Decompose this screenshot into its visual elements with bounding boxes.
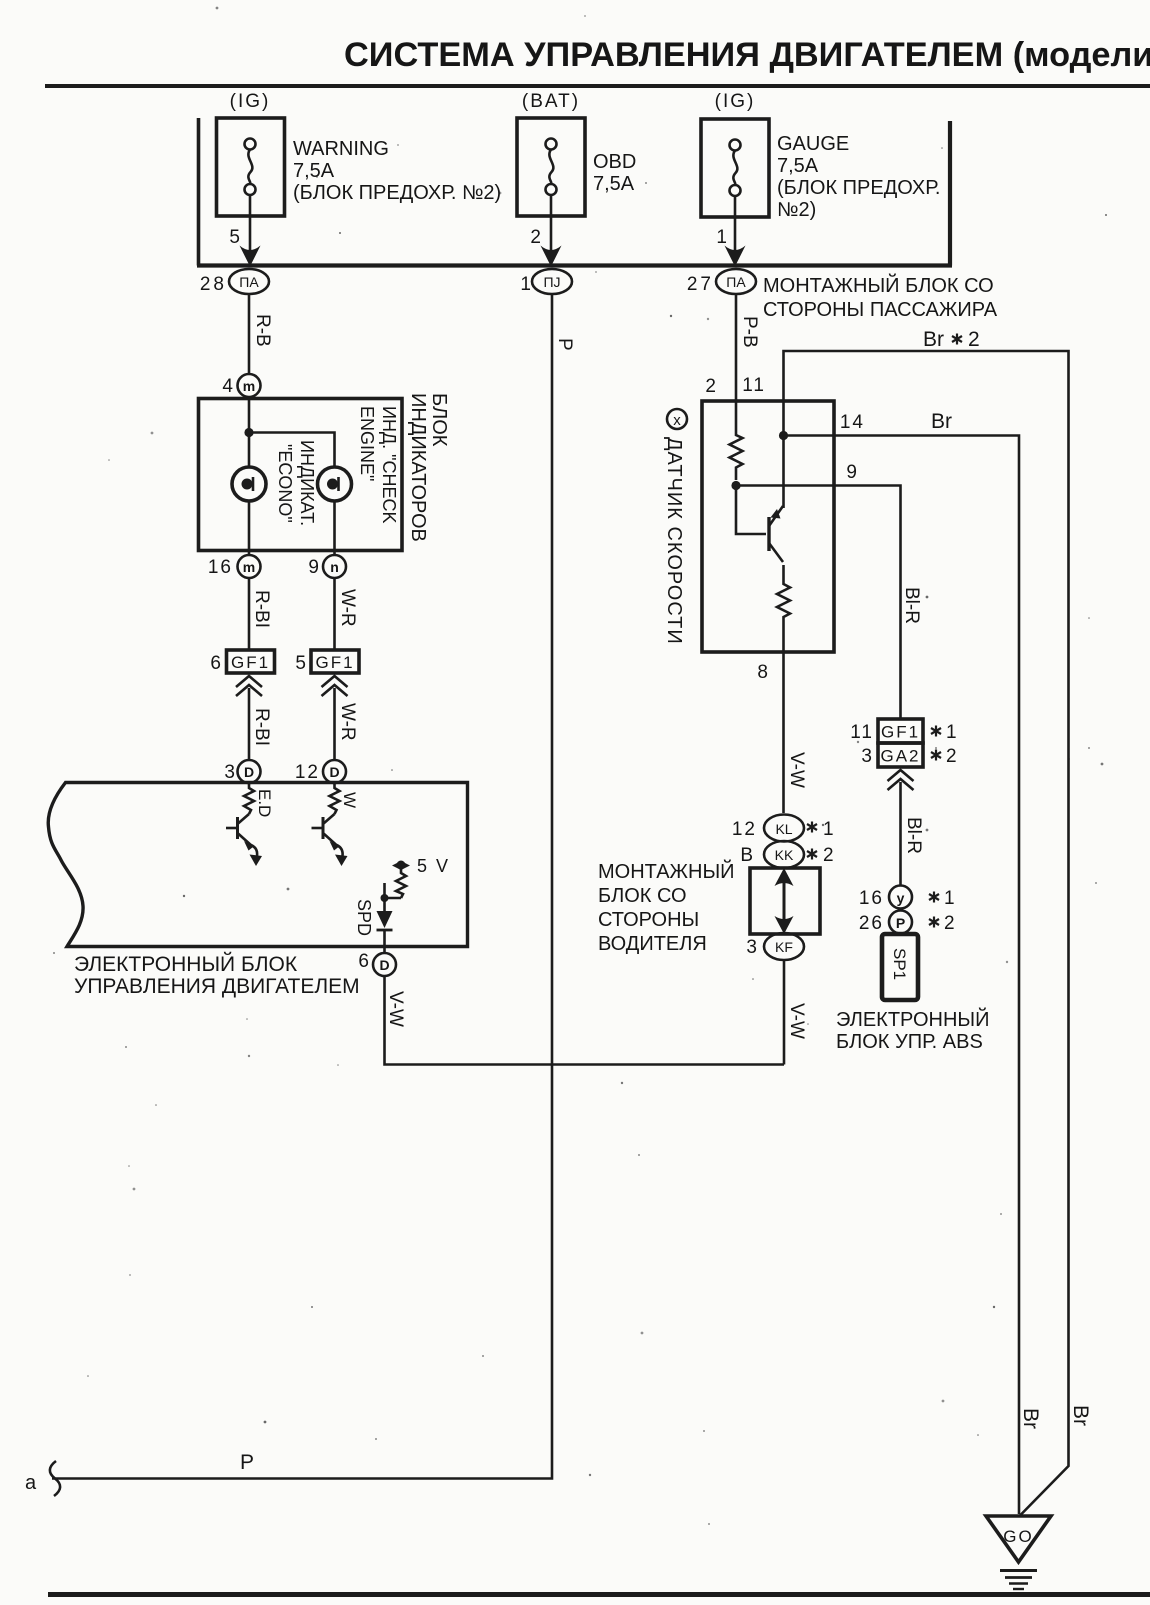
wire P long vertical and bottom run: [25, 294, 575, 1496]
connector 9 n: [308, 555, 346, 578]
fuse F3 GAUGE 7,5A: [701, 91, 940, 221]
connector 12 KL: [732, 815, 834, 842]
svg-text:ДАТЧИК СКОРОСТИ: ДАТЧИК СКОРОСТИ: [663, 437, 685, 645]
svg-text:14: 14: [840, 412, 865, 433]
svg-text:1: 1: [944, 888, 955, 909]
svg-text:OBD: OBD: [593, 151, 636, 173]
svg-text:Bl-R: Bl-R: [903, 817, 924, 854]
svg-text:СТОРОНЫ: СТОРОНЫ: [598, 909, 699, 931]
svg-text:7,5A: 7,5A: [593, 173, 635, 195]
svg-text:БЛОК: БЛОК: [428, 393, 450, 447]
svg-text:R-BI: R-BI: [251, 590, 272, 628]
out-arrow chevrons below 6 GF1: [236, 676, 262, 696]
svg-text:KF: KF: [775, 939, 793, 955]
out-arrow chevrons below 5 GF1: [322, 676, 348, 696]
svg-text:ИНДИКАТОРОВ: ИНДИКАТОРОВ: [407, 393, 429, 542]
svg-text:2: 2: [530, 227, 541, 248]
svg-text:16: 16: [859, 888, 884, 909]
svg-text:УПРАВЛЕНИЯ ДВИГАТЕЛЕМ: УПРАВЛЕНИЯ ДВИГАТЕЛЕМ: [74, 975, 360, 998]
svg-text:МОНТАЖНЫЙ: МОНТАЖНЫЙ: [598, 859, 735, 883]
wire P-B, pins 2 and 11: [705, 294, 766, 401]
svg-text:11: 11: [742, 375, 766, 396]
svg-text:7,5A: 7,5A: [777, 155, 819, 177]
svg-text:m: m: [243, 559, 255, 575]
svg-text:V-W: V-W: [385, 991, 406, 1027]
connector 16 y: [859, 886, 955, 910]
svg-text:1: 1: [823, 819, 834, 840]
svg-text:9: 9: [308, 557, 319, 578]
svg-text:V-W: V-W: [786, 1003, 807, 1039]
svg-text:GF1: GF1: [315, 653, 354, 672]
svg-text:GA2: GA2: [880, 747, 920, 766]
svg-text:БЛОК УПР. ABS: БЛОК УПР. ABS: [836, 1031, 983, 1053]
fuse F2 OBD 7,5A: [517, 91, 636, 216]
ground GO: [986, 1516, 1051, 1589]
svg-text:ПА: ПА: [239, 274, 259, 290]
svg-text:R-B: R-B: [252, 314, 273, 347]
svg-text:2: 2: [968, 328, 980, 351]
connector 6 GF1: [210, 650, 274, 674]
svg-text:Br: Br: [1019, 1408, 1042, 1429]
svg-text:D: D: [244, 764, 254, 780]
svg-text:SPD: SPD: [354, 899, 374, 936]
svg-text:БЛОК СО: БЛОК СО: [598, 885, 687, 907]
svg-text:m: m: [243, 378, 255, 394]
svg-text:WARNING: WARNING: [293, 138, 389, 160]
connector 3 GA2: [861, 743, 956, 767]
svg-text:P-B: P-B: [739, 316, 760, 348]
node 5V supply: [381, 856, 451, 911]
svg-text:x: x: [673, 412, 681, 429]
svg-text:(BAT): (BAT): [522, 91, 580, 112]
svg-text:Br: Br: [1069, 1405, 1092, 1426]
svg-text:5: 5: [229, 227, 240, 248]
svg-text:2: 2: [946, 746, 957, 767]
svg-text:28: 28: [200, 274, 227, 295]
svg-text:9: 9: [846, 462, 857, 483]
transistor Q3: [769, 506, 783, 562]
svg-text:P: P: [554, 338, 575, 351]
svg-text:ПА: ПА: [726, 274, 746, 290]
svg-text:(IG): (IG): [230, 91, 271, 112]
svg-text:SP1: SP1: [890, 948, 909, 980]
svg-text:(IG): (IG): [715, 91, 756, 112]
wire pin 11 branch into sensor: [779, 401, 788, 508]
svg-text:6: 6: [210, 653, 221, 674]
svg-text:27: 27: [687, 274, 714, 295]
svg-text:5 V: 5 V: [417, 856, 450, 876]
lamp CHECK ENGINE indicator: [318, 406, 400, 524]
svg-text:ENGINE": ENGINE": [357, 406, 377, 481]
diode SPD: [354, 899, 393, 953]
resistor sensor R4: [777, 565, 790, 652]
svg-text:3: 3: [224, 762, 235, 783]
wire Bl-R lower: [901, 782, 925, 886]
svg-text:R-BI: R-BI: [251, 708, 272, 746]
svg-text:4: 4: [222, 376, 233, 397]
wire W-R lower: [335, 688, 359, 760]
connector 4 m: [222, 374, 260, 397]
wire Br labels bottom: [1019, 1405, 1092, 1429]
resistor internal R1: [244, 783, 274, 817]
connector 12 D: [295, 760, 346, 783]
svg-text:W-R: W-R: [337, 589, 358, 627]
svg-text:3: 3: [861, 746, 872, 767]
net Br *2 wire: [784, 328, 1069, 1516]
svg-text:n: n: [330, 559, 339, 575]
wire W-R upper: [335, 578, 359, 650]
svg-text:Br: Br: [923, 328, 944, 351]
fuse F1 WARNING 7,5A: [217, 91, 502, 216]
svg-text:KL: KL: [775, 821, 792, 837]
wire lamp ECONO to 16m: [248, 501, 251, 555]
connector 11 GF1: [850, 719, 956, 743]
resistor internal R2: [330, 783, 360, 814]
svg-text:KK: KK: [775, 847, 794, 863]
title СИСТЕМА УПРАВЛЕНИЯ ДВИГАТЕЛЕМ: [344, 36, 1150, 74]
svg-text:Bl-R: Bl-R: [901, 587, 922, 624]
svg-text:GO: GO: [1003, 1527, 1033, 1546]
svg-text:8: 8: [757, 662, 768, 683]
svg-text:GAUGE: GAUGE: [777, 133, 849, 155]
svg-text:a: a: [25, 1472, 37, 1494]
wire base link: [736, 486, 766, 535]
svg-text:МОНТАЖНЫЙ БЛОК СО: МОНТАЖНЫЙ БЛОК СО: [763, 273, 994, 297]
connector 27 ПА: [687, 269, 756, 295]
wire R-BI lower: [249, 688, 272, 760]
lamp ECONO indicator: [232, 440, 317, 526]
speed sensor box ДАТЧИК СКОРОСТИ: [663, 401, 834, 652]
svg-text:СТОРОНЫ ПАССАЖИРА: СТОРОНЫ ПАССАЖИРА: [763, 299, 998, 321]
svg-text:1: 1: [946, 722, 957, 743]
svg-text:(БЛОК ПРЕДОХР.: (БЛОК ПРЕДОХР.: [777, 177, 940, 199]
svg-text:GF1: GF1: [881, 723, 920, 742]
svg-text:26: 26: [859, 913, 884, 934]
svg-text:3: 3: [746, 937, 757, 958]
transistor Q1: [226, 814, 262, 866]
svg-text:GF1: GF1: [231, 653, 270, 672]
wire V-W below KF: [784, 960, 807, 1065]
svg-text:Br: Br: [931, 410, 952, 433]
svg-text:12: 12: [295, 762, 320, 783]
connector 5 GF1: [295, 650, 359, 674]
svg-text:"ECONO": "ECONO": [275, 444, 295, 523]
driver junction box МОНТАЖНЫЙ БЛОК СО СТОРОНЫ ВОДИТЕЛЯ: [598, 859, 820, 955]
connector SP1 ABS unit: [836, 934, 989, 1053]
svg-text:E.D: E.D: [255, 789, 274, 817]
svg-text:W: W: [340, 792, 359, 808]
net 9 wire to Bl-R: [736, 462, 922, 719]
wire fuse F3 to bus, pin 1: [716, 217, 745, 267]
wire R-B: [249, 294, 273, 374]
resistor sensor R3: [730, 401, 743, 480]
svg-text:D: D: [329, 764, 339, 780]
ECU block ЭЛЕКТРОННЫЙ БЛОК УПРАВЛЕНИЯ ДВИГАТЕЛЕМ: [48, 783, 467, 999]
connector 1 ПJ: [520, 269, 572, 295]
net 14 wire Br: [784, 410, 1020, 1514]
wire lamp CHECK to 9n: [333, 501, 336, 555]
wire double arrow in driver box: [775, 868, 794, 934]
connector 3 KF: [746, 933, 804, 960]
svg-text:6: 6: [358, 951, 369, 972]
svg-text:12: 12: [732, 819, 757, 840]
svg-text:2: 2: [823, 845, 834, 866]
svg-text:Р: Р: [896, 915, 905, 931]
svg-text:D: D: [379, 957, 389, 973]
connector 16 m: [208, 555, 261, 578]
connector 28 ПА: [200, 269, 269, 295]
svg-text:1: 1: [716, 227, 727, 248]
node junction dot sensor left: [731, 481, 740, 490]
svg-text:V-W: V-W: [786, 752, 807, 788]
svg-text:ПJ: ПJ: [543, 274, 560, 290]
svg-text:y: y: [897, 890, 905, 906]
svg-text:5: 5: [295, 653, 306, 674]
connector 26 Р: [859, 911, 955, 935]
svg-text:СИСТЕМА УПРАВЛЕНИЯ ДВИГАТЕЛЕМ: СИСТЕМА УПРАВЛЕНИЯ ДВИГАТЕЛЕМ (модели с: [344, 36, 1150, 74]
svg-text:(БЛОК ПРЕДОХР. №2): (БЛОК ПРЕДОХР. №2): [293, 182, 501, 204]
wire from connector 4m into block: [248, 397, 251, 467]
wire V-W from 6D down and right: [385, 976, 785, 1065]
svg-text:ЭЛЕКТРОННЫЙ: ЭЛЕКТРОННЫЙ: [836, 1007, 989, 1031]
wire branch to CHECK ENGINE lamp: [249, 433, 335, 468]
svg-text:2: 2: [944, 913, 955, 934]
connector B KK: [740, 841, 833, 868]
svg-text:W-R: W-R: [337, 703, 358, 741]
svg-text:7,5A: 7,5A: [293, 160, 335, 182]
svg-text:ВОДИТЕЛЯ: ВОДИТЕЛЯ: [598, 933, 707, 955]
svg-text:2: 2: [705, 376, 716, 397]
svg-text:№2): №2): [777, 199, 816, 221]
wire pin 8 V-W: [757, 652, 807, 813]
passenger junction block boundary (bus): [197, 118, 998, 321]
connector 3 D: [224, 760, 260, 783]
wire R-BI upper: [249, 578, 272, 650]
svg-text:ИНДИКАТ.: ИНДИКАТ.: [297, 440, 317, 526]
svg-text:ИНД. "CHECK: ИНД. "CHECK: [379, 406, 399, 524]
svg-text:ЭЛЕКТРОННЫЙ БЛОК: ЭЛЕКТРОННЫЙ БЛОК: [74, 952, 298, 976]
svg-text:1: 1: [520, 274, 531, 295]
wire fuse F1 to bus, pin 5: [229, 216, 260, 267]
svg-text:11: 11: [850, 722, 874, 743]
wire fuse F2 to bus, pin 2: [530, 216, 561, 267]
svg-text:B: B: [740, 845, 753, 866]
out-arrow chevrons below GA2: [888, 770, 914, 790]
transistor Q2: [312, 814, 348, 866]
indicator block БЛОК ИНДИКАТОРОВ: [199, 393, 451, 551]
connector 6 D: [358, 951, 396, 976]
node junction dot: [244, 428, 253, 437]
svg-text:P: P: [240, 1451, 254, 1474]
svg-text:16: 16: [208, 557, 233, 578]
